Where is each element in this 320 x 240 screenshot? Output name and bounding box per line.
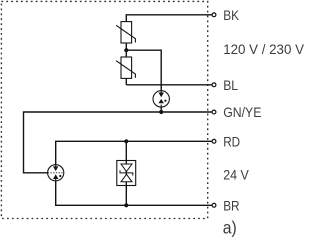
terminal GN/YE xyxy=(212,110,216,114)
svg-text:BL: BL xyxy=(223,77,238,93)
terminal BL xyxy=(212,83,216,87)
svg-text:a): a) xyxy=(223,217,237,237)
wire BL line xyxy=(126,84,211,86)
wire GN/YE line xyxy=(24,112,212,173)
terminal BK xyxy=(212,13,216,17)
varistor RV1 xyxy=(116,22,135,43)
wire RD line xyxy=(56,141,212,164)
wire TVS column xyxy=(125,141,127,205)
terminal BR xyxy=(212,203,216,207)
gas discharge tube F1 xyxy=(153,91,169,107)
svg-text:GN/YE: GN/YE xyxy=(223,104,261,120)
wire RV2 to BL line xyxy=(125,78,127,84)
svg-text:BK: BK xyxy=(223,7,239,23)
wire BK line xyxy=(126,15,211,22)
svg-text:BR: BR xyxy=(223,197,239,213)
varistor RV2 xyxy=(116,57,135,78)
junction dot node between varistors xyxy=(124,48,128,52)
terminal RD xyxy=(212,139,216,143)
svg-text:RD: RD xyxy=(223,133,240,149)
svg-text:24 V: 24 V xyxy=(223,166,249,182)
wire F1 to GN/YE xyxy=(160,107,162,112)
junction dot TVS on RD xyxy=(124,139,128,143)
wire RV1 to RV2 (junction column) xyxy=(125,43,127,57)
junction dot TVS on BR xyxy=(124,203,128,207)
junction dot F1 on GN/YE xyxy=(159,110,163,114)
gas discharge tube F2 (3-electrode) xyxy=(48,165,64,181)
wire node to gas discharge tube F1 xyxy=(126,50,161,91)
TVS suppressor diode box xyxy=(117,161,136,186)
svg-text:120 V / 230 V: 120 V / 230 V xyxy=(223,41,304,57)
enclosure dashed boundary xyxy=(1,1,207,218)
wire F2 to BR line xyxy=(56,181,212,205)
